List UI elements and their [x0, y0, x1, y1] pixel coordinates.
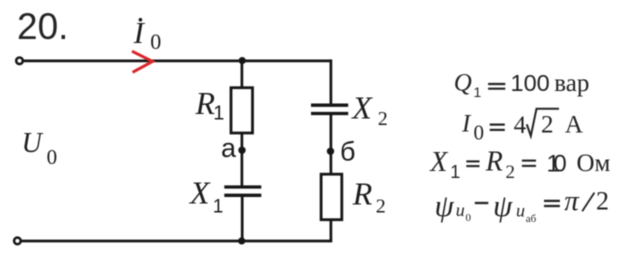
svg-text:1: 1	[450, 162, 460, 182]
svg-text:2: 2	[378, 108, 388, 130]
wire junction top to R1	[241, 61, 244, 88]
current arrow I0	[132, 51, 153, 72]
label R2	[352, 176, 386, 218]
given X1 = R2 = 10 Om	[429, 146, 610, 183]
svg-text:2: 2	[376, 195, 386, 217]
svg-text:вар: вар	[554, 70, 589, 97]
node junction bottom	[238, 237, 245, 244]
svg-text:А: А	[565, 112, 583, 139]
svg-text:U: U	[22, 128, 44, 159]
wire top	[24, 60, 332, 63]
node junction top	[239, 57, 246, 64]
wire R2 bottom to corner	[330, 220, 333, 243]
resistor R2	[321, 174, 342, 220]
node b	[327, 148, 334, 155]
wire bottom	[22, 240, 333, 243]
svg-text:a: a	[221, 133, 237, 163]
svg-text:2: 2	[541, 111, 554, 138]
given I0 = 4 sqrt2 A	[461, 109, 583, 145]
svg-text:π: π	[564, 185, 580, 217]
svg-text:ψ: ψ	[493, 188, 513, 223]
radical sign	[527, 109, 559, 136]
terminal top-left	[16, 58, 23, 65]
svg-text:Q: Q	[454, 70, 472, 97]
svg-text:0: 0	[553, 150, 566, 177]
svg-text:2: 2	[596, 187, 609, 216]
given Q1 = 100 var	[454, 70, 590, 101]
label U0	[22, 128, 58, 169]
svg-text:2: 2	[506, 162, 516, 183]
svg-text:20.: 20.	[17, 6, 68, 47]
label I0	[133, 15, 162, 54]
svg-text:0: 0	[150, 29, 161, 54]
label X1	[188, 174, 223, 217]
svg-text:X: X	[188, 174, 211, 210]
svg-text:б: б	[340, 137, 355, 167]
svg-text:ψ: ψ	[435, 188, 455, 223]
svg-text:0: 0	[466, 212, 472, 224]
svg-text:R: R	[485, 146, 503, 177]
svg-text:1: 1	[474, 84, 482, 100]
label X2	[350, 89, 388, 130]
svg-text:аб: аб	[526, 213, 537, 225]
svg-text:0: 0	[47, 145, 58, 169]
svg-text:0: 0	[474, 120, 485, 144]
wire X2 to R2 through node b	[330, 114, 333, 175]
capacitor X1	[224, 187, 261, 195]
capacitor X2	[311, 105, 348, 113]
svg-text:X: X	[350, 89, 373, 125]
svg-text:4: 4	[514, 112, 527, 139]
svg-text:1: 1	[213, 196, 224, 217]
svg-text:1: 1	[213, 103, 224, 125]
svg-text:u: u	[516, 201, 525, 221]
wire R1 to X1 through node a	[241, 133, 244, 187]
resistor R1	[231, 88, 253, 133]
wire X1 to bottom	[241, 195, 244, 241]
terminal bottom-left	[14, 238, 21, 245]
wire right branch top (to X2)	[330, 59, 333, 105]
node a	[238, 147, 245, 154]
svg-text:Ом: Ом	[577, 150, 611, 177]
svg-text:R: R	[352, 176, 373, 212]
svg-text:u: u	[456, 200, 465, 220]
svg-text:100: 100	[511, 70, 550, 96]
label R1	[195, 85, 225, 124]
given psi_u0 - psi_uab = pi/2	[435, 185, 610, 225]
svg-text:X: X	[429, 147, 448, 178]
